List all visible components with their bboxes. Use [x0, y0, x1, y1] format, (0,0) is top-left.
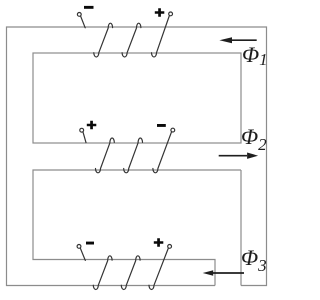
polarity plus W3 right — [154, 238, 164, 247]
core outer outline — [7, 27, 267, 286]
polarity minus W1 left — [84, 6, 94, 9]
winding W1 on top limb — [81, 16, 170, 58]
flux label phi1 — [242, 44, 268, 71]
polarity minus W2 right — [157, 124, 166, 127]
core right limb inner edge — [240, 170, 242, 286]
flux arrow phi2 (points right, middle limb) — [219, 155, 247, 157]
flux arrow phi3 (points left, bottom limb gap) — [213, 272, 244, 274]
flux arrow phi1 (points left, top limb) — [232, 39, 257, 41]
winding W2 on middle limb — [83, 132, 172, 173]
terminal circle W1 left — [77, 13, 81, 17]
winding W3 on bottom limb — [80, 248, 168, 290]
core window 2 (bottom, open right with gap) — [33, 170, 241, 286]
flux label phi3 — [241, 247, 267, 274]
polarity minus W3 left — [86, 242, 94, 245]
polarity plus W2 left — [87, 121, 97, 130]
terminal circle W3 right — [168, 245, 172, 249]
polarity plus W1 right — [155, 8, 165, 17]
terminal circle W2 left — [80, 128, 84, 132]
core window 1 (top) — [33, 53, 241, 143]
terminal circle W1 right — [169, 12, 173, 16]
terminal circle W3 left — [77, 245, 81, 249]
terminal circle W2 right — [171, 128, 175, 132]
flux label phi2 — [241, 126, 267, 153]
